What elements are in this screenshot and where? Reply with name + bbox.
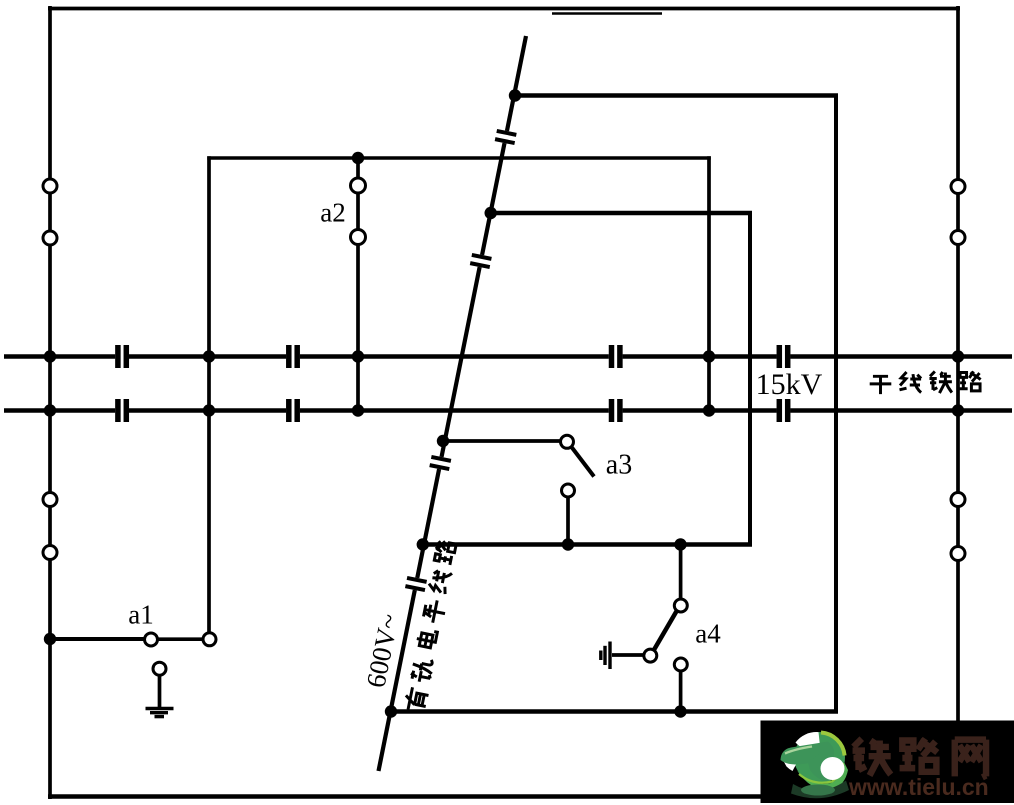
logo white blob lower-right (821, 757, 845, 780)
node: junction tram line / y711.5 wire (385, 705, 397, 717)
node: junction left border / bus1 (44, 350, 56, 362)
node: junction right border / bus2 (952, 404, 964, 416)
section insulator on tram line at (480,261) (470, 253, 492, 269)
wire: vertical feeder at x836 (834, 94, 838, 714)
label 有轨电车线路 (tram line, rotated) (403, 540, 459, 713)
wire: tramway diagonal line (379, 36, 527, 771)
node: junction tram line / y441 wire (437, 435, 449, 447)
node: junction left border / bus2 (44, 404, 56, 416)
wire: horizontal link y213 from tram line to x750 (489, 211, 752, 216)
wire: outer frame right border (956, 6, 960, 722)
node: junction left border / a1 wire (44, 633, 56, 645)
wire: horizontal link y544.5 from tram line to x750 (421, 542, 752, 547)
logo under band (791, 781, 849, 799)
section insulator on bus2 at x122 (115, 399, 129, 422)
logo white sliver under tail (784, 762, 796, 771)
wire: a1 horizontal wire (48, 637, 204, 641)
node: junction x709 / bus1 (703, 350, 715, 362)
wire: horizontal link y158 from x209 to x709 (207, 156, 711, 159)
node: junction tram line / y544.5 wire (417, 538, 429, 550)
disconnector a3 bottom circle (562, 484, 575, 497)
ground symbol below a1 (146, 709, 174, 717)
disconnector a4 blade (to earth contact) (653, 610, 678, 652)
node: junction tram line / y95.5 wire (509, 89, 521, 101)
wire: horizontal link y711.5 from tram line to x836 (389, 709, 838, 714)
svg-text:15kV: 15kV (756, 368, 823, 401)
section insulator on bus1 at x615.7 (609, 345, 623, 368)
disconnector a1 left circle (145, 633, 158, 646)
section insulator on bus1 at x293 (286, 345, 300, 368)
disconnector a3 top circle (561, 435, 574, 448)
disconnector a4 top circle (674, 599, 687, 612)
section insulator on tram line at (416,584) (405, 576, 427, 592)
node: junction x358 / y158 wire (352, 152, 364, 164)
logo bottom crescent (797, 762, 848, 790)
isolator circle right border lower pair 1 (951, 493, 965, 507)
wire: earth stem below a1 (158, 676, 162, 708)
isolator circle left border lower pair 1 (43, 493, 57, 507)
isolator circle right border upper pair 2 (951, 231, 965, 245)
wire: a4 bottom stem (679, 671, 683, 711)
node: junction a4 bottom / y711.5 wire (674, 705, 686, 717)
node: junction x209 / bus1 (203, 350, 215, 362)
svg-text:a3: a3 (606, 450, 632, 481)
wire: vertical feeder at x750 (748, 211, 752, 546)
logo under band green mottling (801, 785, 835, 796)
svg-text:www.tielu.cn: www.tielu.cn (848, 774, 989, 800)
node: junction x709 / bus2 (703, 404, 715, 416)
logo sphere base (794, 732, 845, 783)
busbar: catenary line 1 (upper) (4, 354, 1012, 359)
wire: a4 earth wire (612, 653, 644, 657)
section insulator on bus1 at x783.5 (777, 345, 791, 368)
earthing contact circle below a1 (153, 662, 166, 675)
svg-text:a2: a2 (320, 198, 345, 228)
node: junction x358 / bus2 (352, 404, 364, 416)
isolator circle left border upper pair 1 (43, 179, 57, 193)
ground symbol left of a4 (rotated) (601, 642, 610, 670)
wire: top border scan-doubling artifact (552, 12, 662, 15)
section insulator on tram line at (503,137) (495, 129, 517, 145)
disconnector a1 right circle (203, 633, 216, 646)
busbar: catenary line 2 (lower) (4, 408, 1012, 413)
logo tail top highlight (785, 747, 812, 754)
wire: vertical feeder at x709 (707, 156, 711, 410)
wire: a3 bottom stem (566, 497, 570, 543)
disconnector a2 lower circle (351, 230, 366, 245)
node: junction a4 top / y544.5 wire (674, 538, 686, 550)
svg-text:a1: a1 (128, 600, 153, 630)
node: junction a3 bottom / y544.5 wire (562, 538, 574, 550)
tielu.cn watermark logo box (761, 721, 1014, 804)
section insulator on tram line at (440,463) (429, 455, 451, 471)
logo crescent bright edge (799, 763, 843, 783)
wire: horizontal link y441 from tram line to switch a3 (441, 439, 561, 443)
isolator circle right border lower pair 2 (951, 547, 965, 561)
disconnector a2 upper circle (351, 178, 366, 193)
svg-text:a4: a4 (695, 619, 721, 649)
disconnector a4 bottom circle (674, 658, 687, 671)
wire: vertical feeder at x358 (a2 branch) (356, 156, 360, 410)
logo swoosh descender (808, 748, 837, 783)
section insulator on bus1 at x122 (115, 345, 129, 368)
wire: outer frame bottom border (48, 794, 763, 799)
isolator circle right border upper pair 1 (951, 180, 965, 194)
logo title 铁路网 (853, 739, 986, 778)
isolator circle left border upper pair 2 (43, 231, 57, 245)
section insulator on bus2 at x783.5 (777, 399, 791, 422)
logo green swoosh t (781, 742, 835, 765)
node: junction x358 / bus1 (352, 350, 364, 362)
wire: vertical feeder at x209 (207, 156, 211, 633)
node: junction x209 / bus2 (203, 404, 215, 416)
isolator circle left border lower pair 2 (43, 546, 57, 560)
wire: outer frame top border (48, 7, 960, 11)
section insulator on bus2 at x293 (286, 399, 300, 422)
node: junction tram line / y213 wire (485, 207, 497, 219)
wire: a4 top stem (679, 545, 683, 600)
disconnector a4 earth-side circle (644, 649, 657, 662)
wire: outer frame left border (48, 6, 52, 799)
disconnector a3 blade (open) (572, 447, 595, 477)
logo white wedge upper-left (796, 732, 821, 751)
label 干线铁路 (main line railway) (870, 371, 981, 394)
node: junction right border / bus1 (952, 350, 964, 362)
wire: horizontal link y95.5 from tram line to x836 (513, 93, 838, 98)
logo sphere bright rim (821, 733, 845, 756)
section insulator on bus2 at x615.7 (609, 399, 623, 422)
